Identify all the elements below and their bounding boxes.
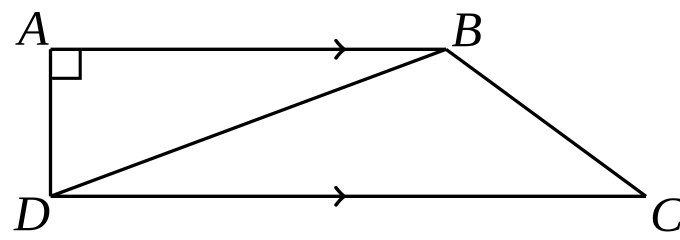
diagonal DB xyxy=(51,49,447,196)
arrow mark on AB xyxy=(336,41,344,58)
side BC (right slanted) xyxy=(446,49,646,196)
side AB (top, parallel mark) xyxy=(51,48,447,51)
svg-text:D: D xyxy=(13,185,50,233)
side DC (bottom, parallel mark) xyxy=(51,195,647,198)
arrow mark on DC xyxy=(336,188,344,205)
svg-text:C: C xyxy=(650,186,680,233)
right angle mark at A xyxy=(52,51,80,78)
side AD (left vertical) xyxy=(49,49,52,196)
svg-text:B: B xyxy=(452,1,483,57)
svg-text:A: A xyxy=(15,0,49,56)
